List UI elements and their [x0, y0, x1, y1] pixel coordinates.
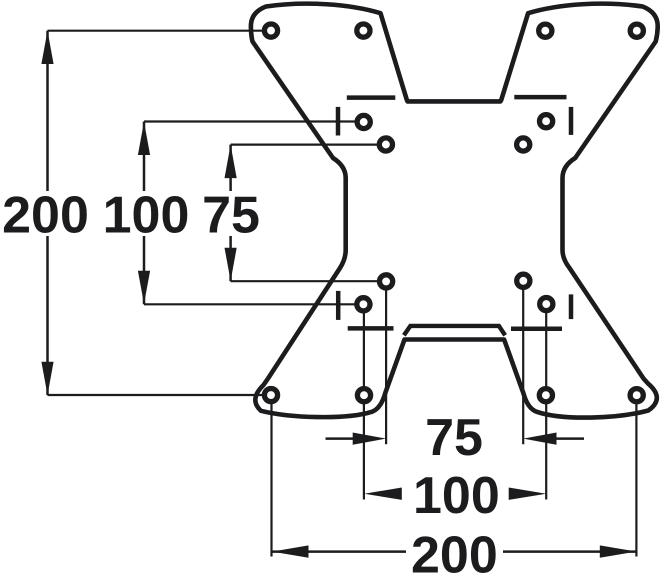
tick mark bottom-right horizontal — [511, 327, 562, 332]
dimension line 75 horizontal left tail — [326, 437, 359, 440]
tick mark top-right vertical — [569, 107, 574, 135]
hole 75-pattern bottom-left — [380, 275, 393, 288]
tab at bottom notch — [404, 326, 505, 335]
hole 75-pattern top-left — [379, 138, 392, 151]
hole wing bottom-right inner — [539, 389, 552, 402]
dimension line 75 vertical — [229, 145, 232, 282]
arrowhead 100 vertical down — [138, 271, 150, 304]
extension line 200-top leader — [48, 30, 272, 32]
hole 200-pattern bottom-left — [264, 389, 277, 402]
hole 100-pattern bottom-left — [357, 298, 370, 311]
arrowhead 200 horizontal right — [600, 545, 637, 557]
dimension line 200 vertical — [46, 31, 49, 395]
arrowhead 200 vertical up — [41, 31, 53, 64]
plate outline — [251, 4, 658, 418]
arrowhead 100 horizontal right — [509, 488, 547, 500]
hole 200-pattern top-right — [630, 24, 643, 37]
extension line 75-bottom leader — [231, 280, 386, 282]
svg-text:100: 100 — [413, 467, 500, 525]
white backing 75 left label — [202, 191, 260, 236]
hole 200-pattern bottom-right — [630, 389, 643, 402]
hole 100-pattern top-right — [540, 115, 553, 128]
svg-text:200: 200 — [2, 186, 89, 244]
dimension line 200 horizontal — [272, 550, 636, 553]
extension line E4 right 100 — [545, 304, 547, 499]
hole wing bottom-left inner — [357, 389, 370, 402]
tick mark top-left vertical — [336, 107, 341, 136]
hole 75-pattern bottom-right — [517, 274, 530, 287]
svg-text:75: 75 — [202, 186, 260, 244]
tick mark top-right horizontal — [514, 95, 566, 100]
extension line E5 left 75 — [385, 281, 387, 444]
extension line E1 left 200 — [270, 395, 272, 557]
hole 100-pattern bottom-right — [540, 298, 553, 311]
svg-text:200: 200 — [411, 527, 498, 583]
extension line 75-top leader — [231, 144, 386, 146]
extension line E3 left 100 — [363, 304, 365, 499]
arrowhead 200 horizontal left — [272, 545, 309, 557]
white backing 200 left label — [2, 191, 90, 236]
arrowhead 100 vertical up — [138, 122, 150, 155]
arrowhead 100 horizontal left — [364, 488, 402, 500]
hole wing top-right inner — [539, 24, 552, 37]
extension line 100-bottom leader — [144, 303, 364, 305]
white backing 100 left label — [102, 191, 190, 236]
extension line 200-bottom leader — [48, 394, 272, 396]
svg-text:100: 100 — [103, 186, 190, 244]
extension line E6 right 75 — [522, 281, 524, 444]
hole 100-pattern top-left — [357, 115, 370, 128]
arrowhead 75 horizontal left — [353, 433, 386, 445]
extension line E2 right 200 — [635, 395, 637, 557]
svg-text:75: 75 — [425, 409, 483, 467]
arrowhead 200 vertical down — [41, 362, 53, 395]
tick mark bottom-left horizontal — [348, 326, 394, 331]
tick mark top-left horizontal — [347, 95, 396, 100]
hole 200-pattern top-left — [264, 24, 277, 37]
white backing 200 bottom label — [406, 533, 503, 576]
arrowhead 75 vertical down — [225, 248, 237, 281]
tick mark bottom-right vertical — [569, 294, 574, 319]
dimension line 75 horizontal right tail — [554, 437, 584, 440]
arrowhead 75 horizontal right — [523, 433, 556, 445]
hole 75-pattern top-right — [517, 138, 530, 151]
tick mark bottom-left vertical — [336, 291, 341, 320]
dimension line 100 vertical — [143, 122, 146, 305]
arrowhead 75 vertical up — [225, 145, 237, 178]
extension line 100-top leader — [144, 120, 364, 122]
hole wing top-left inner — [357, 24, 370, 37]
